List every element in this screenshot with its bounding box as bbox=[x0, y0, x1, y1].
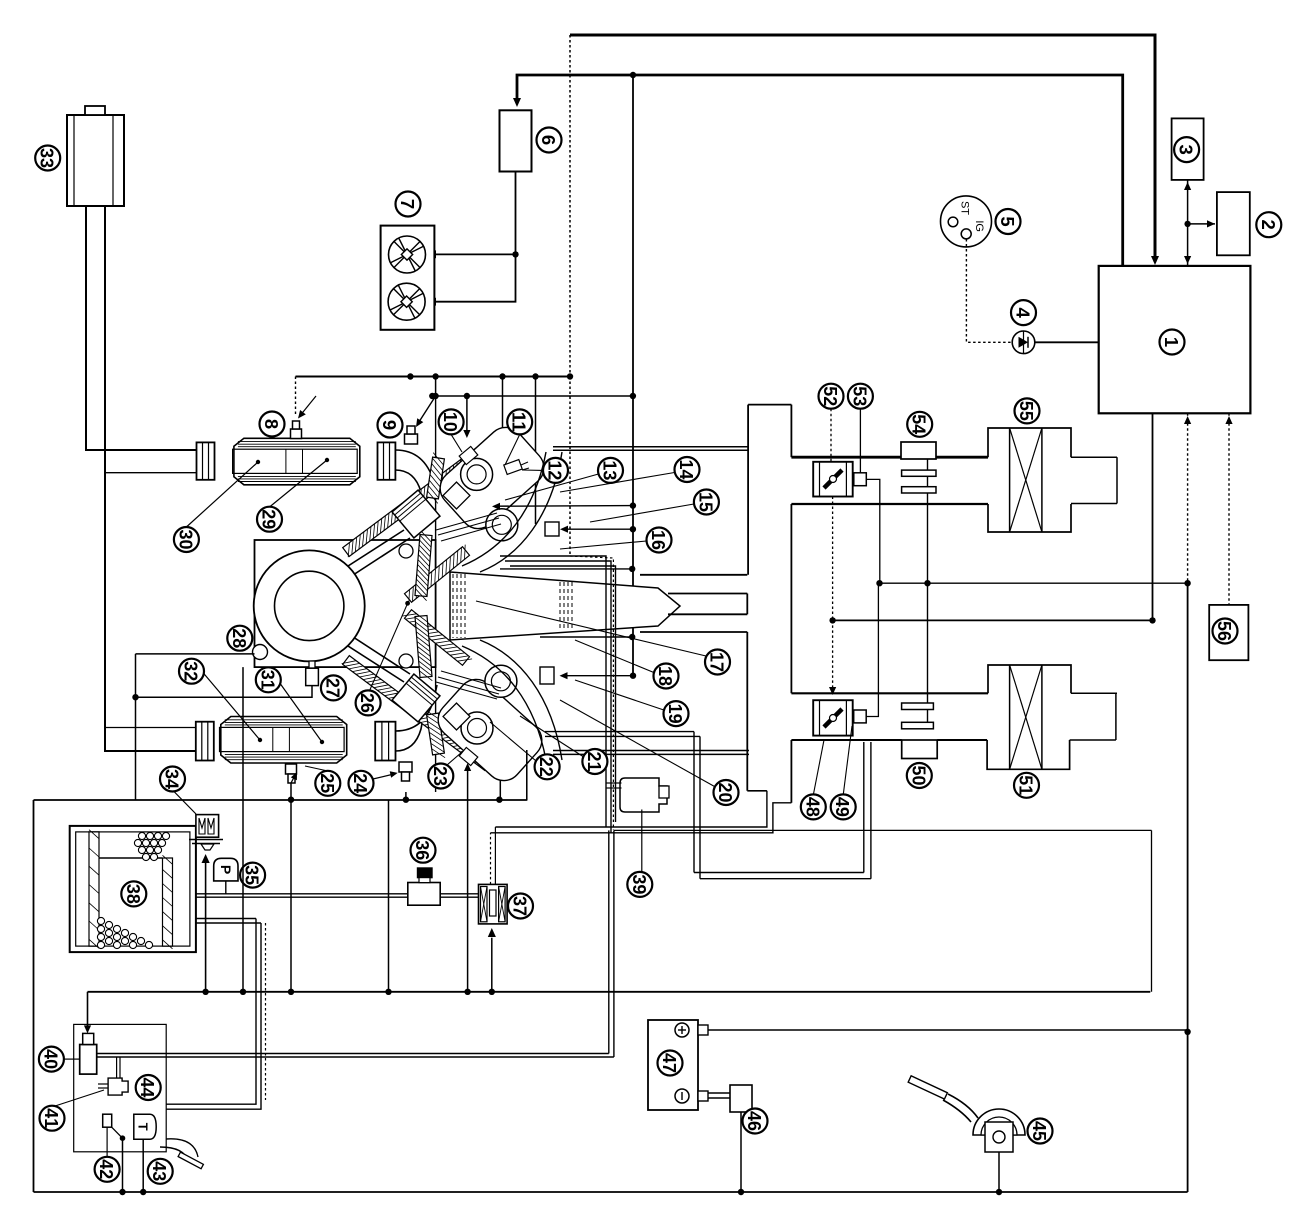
lower passage bottom wall bbox=[640, 631, 747, 633]
arrowhead into ECU top at x1155 bbox=[1151, 256, 1159, 265]
leader 26 bbox=[368, 603, 408, 694]
svg-text:23: 23 bbox=[430, 766, 451, 786]
label 41 bbox=[40, 1106, 65, 1131]
label 49 bbox=[831, 794, 856, 819]
intake channel bottom jog bbox=[747, 790, 767, 792]
junction y396 x466 bbox=[464, 393, 470, 399]
leader 49 bbox=[843, 726, 852, 795]
svg-text:30: 30 bbox=[175, 530, 196, 550]
upper distributor circle bbox=[461, 458, 493, 490]
sensor bus y396 bbox=[432, 395, 633, 397]
svg-text:IG: IG bbox=[973, 220, 985, 232]
upper manifold right flange bbox=[378, 442, 396, 479]
svg-text:5: 5 bbox=[997, 216, 1018, 226]
label 22 bbox=[535, 754, 560, 779]
sensor bus y376 bbox=[296, 376, 571, 378]
intake runner upper bbox=[553, 446, 748, 448]
canister hatch right bbox=[163, 858, 173, 946]
fan shroud box 7 bbox=[381, 226, 435, 330]
VSV 34 base bbox=[189, 839, 223, 841]
svg-text:6: 6 bbox=[538, 135, 559, 145]
wire relay6 to fans bbox=[425, 172, 516, 302]
TPS connector lower bbox=[854, 710, 867, 723]
wire sensor24 stub bbox=[405, 792, 407, 800]
junction x435-y396 bbox=[432, 393, 438, 399]
wire 42 diag bbox=[112, 1127, 123, 1138]
svg-text:3: 3 bbox=[1176, 144, 1197, 154]
ignition coil boot 12 bbox=[504, 460, 522, 475]
signal line y620 bbox=[833, 619, 1153, 621]
leader 39 bbox=[641, 810, 643, 872]
svg-text:47: 47 bbox=[659, 1053, 680, 1073]
label 12 bbox=[543, 458, 568, 483]
wire TPS1 down bbox=[866, 479, 880, 583]
lower passage top wall bbox=[668, 613, 747, 615]
diode 4 symbol bbox=[1019, 337, 1029, 348]
label 1 bbox=[1160, 330, 1185, 355]
upper passage bottom wall bbox=[668, 593, 747, 595]
lower bank inner wall high bbox=[427, 713, 445, 755]
svg-text:26: 26 bbox=[357, 693, 378, 713]
wire bus to 40 bbox=[87, 992, 89, 1031]
wire 37 up arrow bbox=[491, 938, 493, 992]
upper manifold body 29 bbox=[234, 438, 360, 485]
lower pipe bottom wall bbox=[791, 739, 901, 741]
throttle body 48 bbox=[813, 700, 853, 735]
ECU box 1 bbox=[1099, 266, 1251, 413]
evap pipe canister lower bbox=[196, 918, 256, 920]
battery plus wire bbox=[708, 1029, 1188, 1031]
wire 42 down bbox=[106, 1127, 108, 1157]
wire sensor25 down bbox=[290, 783, 292, 992]
upper passage top wall bbox=[640, 574, 747, 576]
svg-text:38: 38 bbox=[123, 884, 144, 904]
label 11 bbox=[507, 409, 532, 434]
label 18 bbox=[654, 664, 679, 689]
svg-text:39: 39 bbox=[629, 874, 650, 894]
intake plenum bbox=[450, 572, 680, 640]
canister beads bottom bbox=[97, 917, 104, 924]
piston upper bbox=[392, 490, 440, 538]
upper pipe top wall segment2 bbox=[791, 456, 813, 458]
label 25 bbox=[315, 771, 340, 796]
air cleaner 33 inner line left bbox=[73, 115, 75, 206]
runner curve upper bbox=[462, 452, 546, 566]
wire sensor24 down bbox=[388, 800, 390, 992]
check connector box 2 bbox=[1217, 192, 1250, 255]
flywheel outer bbox=[254, 550, 365, 661]
svg-text:20: 20 bbox=[715, 783, 736, 803]
label 52 bbox=[819, 384, 844, 409]
svg-text:41: 41 bbox=[41, 1108, 62, 1128]
channel right wall mid bbox=[790, 504, 792, 693]
leader 11 bbox=[505, 435, 520, 466]
upper cam cover blob bbox=[433, 420, 551, 536]
piston lower bbox=[392, 674, 440, 722]
leader 13 bbox=[505, 474, 599, 500]
svg-text:44: 44 bbox=[137, 1078, 158, 1099]
wire knock sensor down bbox=[242, 667, 244, 992]
label 40 bbox=[39, 1047, 64, 1072]
svg-text:15: 15 bbox=[695, 492, 716, 512]
label 4 bbox=[1011, 300, 1036, 325]
label 27 bbox=[321, 675, 346, 700]
wire 37 solid up bbox=[494, 827, 496, 884]
leader 15 bbox=[590, 504, 694, 522]
leader 30 bbox=[186, 462, 258, 527]
flywheel inner bbox=[275, 571, 344, 640]
label 56 bbox=[1213, 619, 1238, 644]
wire sensor28 left bbox=[136, 653, 255, 655]
ISC box 50 bbox=[902, 740, 938, 759]
label 35 bbox=[240, 863, 265, 888]
frame left edge bbox=[33, 800, 35, 1192]
upper bank inner wall diag bbox=[405, 547, 470, 603]
ISC dashpot 54 bbox=[901, 442, 936, 459]
junction bus 502 bbox=[499, 373, 505, 379]
lower coil circle bbox=[485, 665, 517, 697]
label 33 bbox=[35, 146, 60, 171]
label 36 bbox=[411, 838, 436, 863]
wire x502 to coil11 bbox=[502, 377, 504, 449]
throttle body 52 bbox=[813, 462, 853, 497]
wire coil2 down bbox=[499, 733, 501, 800]
leader 31 bbox=[268, 667, 322, 742]
wire diag to sensor9 bbox=[417, 396, 436, 425]
accelerator pedal 45 bbox=[908, 1076, 947, 1099]
svg-text:51: 51 bbox=[1016, 775, 1037, 795]
junction bus x386 bbox=[385, 989, 391, 995]
engine block bbox=[255, 540, 436, 667]
lower manifold body 31 bbox=[221, 717, 347, 764]
svg-text:40: 40 bbox=[40, 1049, 61, 1069]
svg-text:43: 43 bbox=[149, 1161, 170, 1181]
junction pedal frame bbox=[996, 1189, 1002, 1195]
arrowhead into box2 bbox=[1207, 220, 1215, 227]
junction 46 frame bbox=[738, 1189, 744, 1195]
wire sensor23 down bbox=[467, 765, 469, 992]
svg-text:17: 17 bbox=[707, 652, 728, 672]
wire x135 down bbox=[135, 654, 137, 801]
harness loop thin right bbox=[1151, 830, 1153, 991]
wire ECU x1152 bbox=[1152, 413, 1154, 620]
svg-text:28: 28 bbox=[229, 628, 250, 648]
junction y396 x633 bbox=[630, 393, 636, 399]
EGR solenoid 37 bbox=[479, 884, 508, 924]
wire ignition line bbox=[517, 75, 1123, 266]
exhaust pipe right of lower flange bbox=[396, 685, 438, 731]
leader 17 bbox=[476, 601, 706, 656]
key terminal ST bbox=[948, 217, 958, 227]
svg-text:50: 50 bbox=[908, 766, 929, 786]
junction y583 x927 bbox=[924, 580, 930, 586]
evap pipe 1 bbox=[196, 893, 408, 895]
wire box3 to ECU bbox=[1187, 180, 1189, 266]
leader 16 bbox=[560, 541, 647, 549]
purge VSV 34 bbox=[196, 815, 219, 838]
injector harness rail3 bbox=[510, 566, 616, 822]
wire main power top bbox=[570, 35, 1155, 262]
lower harness rail1 bbox=[545, 731, 694, 733]
leader 23 bbox=[447, 752, 462, 765]
lower manifold left flange bbox=[196, 722, 214, 761]
block edge circle lower bbox=[399, 654, 413, 668]
svg-text:49: 49 bbox=[832, 797, 853, 817]
arrowhead down into ECU bbox=[1184, 256, 1191, 264]
junction top line x633 bbox=[630, 72, 636, 78]
canister inner wall bbox=[76, 832, 190, 946]
wire x526 up bbox=[526, 750, 528, 800]
svg-text:34: 34 bbox=[162, 769, 183, 790]
leader 19 bbox=[575, 680, 664, 710]
key terminal IG bbox=[961, 229, 971, 239]
leader 24 arrow bbox=[373, 774, 396, 780]
canister divider bbox=[99, 857, 162, 859]
conrod lower bbox=[320, 628, 404, 682]
diode 4 circle bbox=[1012, 331, 1035, 354]
wire bus to sensor8 bbox=[295, 377, 297, 415]
junction fan wire bbox=[512, 251, 518, 257]
wire sensor27 left bbox=[136, 686, 313, 698]
svg-text:T: T bbox=[136, 1123, 151, 1131]
label 17 bbox=[705, 650, 730, 675]
label 20 bbox=[714, 780, 739, 805]
svg-text:29: 29 bbox=[259, 509, 280, 529]
big loop left pair bbox=[693, 732, 695, 873]
resistor 46 bbox=[730, 1085, 752, 1112]
junction y396 x432 bbox=[429, 393, 435, 399]
cable 43 arc bbox=[166, 1139, 198, 1157]
label 38 bbox=[121, 881, 146, 906]
svg-text:46: 46 bbox=[744, 1111, 765, 1131]
wire branch to box2 bbox=[1188, 223, 1215, 225]
frame top edge bbox=[34, 799, 527, 801]
upper manifold left flange bbox=[197, 442, 215, 479]
upper coil circle bbox=[486, 509, 518, 541]
air cleaner 33 inner line right bbox=[112, 115, 114, 206]
leader 20 bbox=[560, 700, 715, 787]
wire pedal down bbox=[998, 1152, 1000, 1192]
leader 32 bbox=[192, 659, 261, 740]
plenum hatch mid bbox=[559, 582, 561, 630]
label 13 bbox=[598, 458, 623, 483]
leader 34 bbox=[173, 790, 197, 814]
crank sensor 27 bbox=[306, 668, 319, 685]
intake channel left wall low bbox=[746, 632, 748, 791]
wire TPS2 up bbox=[866, 583, 878, 716]
label 42 bbox=[95, 1157, 120, 1182]
junction 42 frame bbox=[119, 1189, 125, 1195]
junction bus 435 bbox=[432, 373, 438, 379]
svg-text:37: 37 bbox=[510, 896, 531, 916]
svg-text:4: 4 bbox=[1013, 307, 1034, 318]
upper cover nub bbox=[459, 446, 478, 464]
arrowhead up into box3 bbox=[1184, 182, 1191, 190]
lower bank outer wall bbox=[343, 656, 492, 771]
check valve 36 bbox=[408, 883, 440, 906]
wire 46 down bbox=[740, 1112, 742, 1192]
plenum hatch left bbox=[452, 574, 454, 638]
fuel injector 39 bbox=[620, 778, 667, 812]
wire y637 to engine bbox=[540, 636, 632, 638]
crank notch 28 bbox=[253, 645, 268, 660]
svg-text:31: 31 bbox=[257, 670, 278, 690]
oxygen sensor 9 bbox=[405, 434, 418, 444]
label 26 bbox=[356, 690, 381, 715]
harness loop thin top bbox=[614, 829, 1152, 831]
wire x435 sensor9 bbox=[435, 377, 437, 397]
label 48 bbox=[801, 794, 826, 819]
lower duct return line bbox=[105, 727, 196, 729]
label 30 bbox=[174, 527, 199, 552]
vacuum rail lower bbox=[491, 803, 792, 833]
fuel pump relay 40 bbox=[80, 1045, 97, 1075]
leader 12 bbox=[522, 469, 543, 471]
label 19 bbox=[664, 701, 689, 726]
upper plug rails bbox=[436, 513, 497, 530]
label 44 bbox=[136, 1075, 161, 1100]
wire 53 bbox=[859, 409, 861, 473]
ground bus y991 bbox=[88, 991, 1151, 993]
intake channel right wall upper bbox=[790, 405, 792, 458]
junction TPS2 y583 bbox=[876, 580, 882, 586]
oxygen sensor 8 bbox=[291, 429, 302, 439]
svg-text:32: 32 bbox=[181, 661, 202, 681]
junction box2 branch bbox=[1184, 221, 1190, 227]
wire 43 down bbox=[142, 1139, 144, 1192]
label 5 bbox=[996, 209, 1021, 234]
junction 43 frame bbox=[140, 1189, 146, 1195]
battery minus stub bbox=[698, 1091, 708, 1101]
label 51 bbox=[1014, 773, 1039, 798]
svg-text:P: P bbox=[218, 865, 234, 874]
upper bank inner wall low bbox=[415, 535, 432, 597]
label 32 bbox=[179, 659, 204, 684]
wire 52 dotted lower bbox=[832, 620, 834, 691]
svg-text:8: 8 bbox=[261, 419, 282, 429]
junction x1187 battery bbox=[1184, 1029, 1190, 1035]
label 45 bbox=[1028, 1119, 1053, 1144]
injector upper feed bbox=[494, 505, 633, 508]
lower cam cover blob bbox=[431, 672, 549, 788]
upper duct return line bbox=[105, 472, 197, 474]
lower cam diamond bbox=[443, 703, 470, 730]
upper pipe stub right bbox=[1071, 456, 1117, 458]
battery plus terminal bbox=[675, 1023, 689, 1037]
battery minus terminal bbox=[675, 1089, 689, 1103]
evap pipe 2 bbox=[440, 893, 480, 895]
label 29 bbox=[257, 507, 282, 532]
leader 25 arrow bbox=[305, 766, 328, 771]
label 43 bbox=[148, 1159, 173, 1184]
leader 41 bbox=[52, 1090, 104, 1107]
wire key to diode bbox=[966, 239, 1012, 342]
label 55 bbox=[1015, 398, 1040, 423]
svg-text:18: 18 bbox=[655, 666, 676, 686]
upper pipe top wall bbox=[791, 456, 988, 459]
main wire pair right bbox=[97, 1053, 609, 1055]
circuit opening relay 44 bbox=[108, 1078, 128, 1095]
junction bus 535 bbox=[532, 373, 538, 379]
battery plus stub bbox=[698, 1025, 708, 1035]
junction 37 bus bbox=[489, 989, 495, 995]
vacuum rail upper bbox=[495, 791, 767, 827]
wire x466 to distributor bbox=[466, 396, 468, 436]
label 7 bbox=[396, 192, 421, 217]
wire vertical x633 bbox=[632, 75, 634, 676]
frame bottom edge bbox=[34, 1191, 1188, 1193]
battery minus wire bbox=[708, 1092, 730, 1094]
wire x535 to plug boot bbox=[535, 377, 537, 525]
lower plug rails bbox=[436, 682, 497, 699]
wire to fan1 bbox=[425, 253, 516, 255]
label 31 bbox=[256, 667, 281, 692]
svg-text:27: 27 bbox=[322, 678, 343, 698]
exhaust pipe right of flange bbox=[395, 450, 437, 496]
svg-text:ST: ST bbox=[959, 201, 971, 215]
junction bus x467 bbox=[464, 989, 470, 995]
wire 37 dotted up bbox=[490, 833, 492, 885]
svg-text:54: 54 bbox=[909, 414, 930, 435]
block edge circle upper bbox=[399, 544, 413, 558]
wire x927 down bbox=[927, 493, 929, 703]
canister beads top bbox=[138, 832, 145, 839]
temp switch 43 bbox=[134, 1114, 156, 1139]
cold start injector 20 wire bbox=[526, 750, 528, 801]
label 54 bbox=[907, 412, 932, 437]
leader 22 bbox=[490, 722, 536, 761]
label 3 bbox=[1174, 137, 1199, 162]
label 8 bbox=[260, 412, 285, 437]
lower distributor circle bbox=[461, 712, 493, 744]
TPS connector upper bbox=[854, 473, 867, 486]
svg-text:14: 14 bbox=[676, 460, 697, 481]
air cleaner 33 cap bbox=[85, 106, 105, 115]
label 9 bbox=[378, 413, 403, 438]
charcoal canister 38 outer bbox=[70, 826, 196, 952]
key switch 5 body bbox=[941, 196, 992, 247]
svg-text:21: 21 bbox=[584, 752, 605, 772]
svg-text:56: 56 bbox=[1214, 621, 1235, 641]
evap dotted companion bbox=[265, 923, 267, 1100]
fan 1 bbox=[389, 236, 426, 273]
wire x1187 lower bbox=[1187, 583, 1189, 1192]
fan 2 bbox=[388, 283, 425, 320]
lower cover nub bbox=[459, 747, 478, 765]
label 16 bbox=[647, 528, 672, 553]
canister hatch left bbox=[89, 832, 99, 946]
wire ECU x1229 dotted bbox=[1228, 413, 1230, 605]
label 50 bbox=[907, 763, 932, 788]
junction bus 410 bbox=[407, 373, 413, 379]
junction x135 y697 bbox=[132, 694, 138, 700]
upper bank outer wall bbox=[343, 442, 492, 557]
intake channel top bbox=[748, 404, 791, 406]
leader 29 bbox=[270, 460, 328, 507]
svg-text:42: 42 bbox=[96, 1159, 117, 1179]
leader arrow sensor8 bbox=[299, 396, 316, 417]
junction bus-570 bbox=[567, 373, 573, 379]
upper bank inner wall high bbox=[427, 457, 445, 499]
lower pipe stub right bbox=[1071, 692, 1117, 694]
air cleaner 55 bbox=[988, 428, 1071, 457]
arrowhead fan2 bbox=[427, 298, 436, 306]
svg-text:35: 35 bbox=[242, 865, 263, 885]
throttle opener lower bbox=[902, 703, 934, 710]
diagnostic box 3 bbox=[1172, 118, 1204, 179]
channel right wall low bbox=[790, 740, 792, 803]
arrowhead into relay 6 bbox=[513, 98, 521, 107]
